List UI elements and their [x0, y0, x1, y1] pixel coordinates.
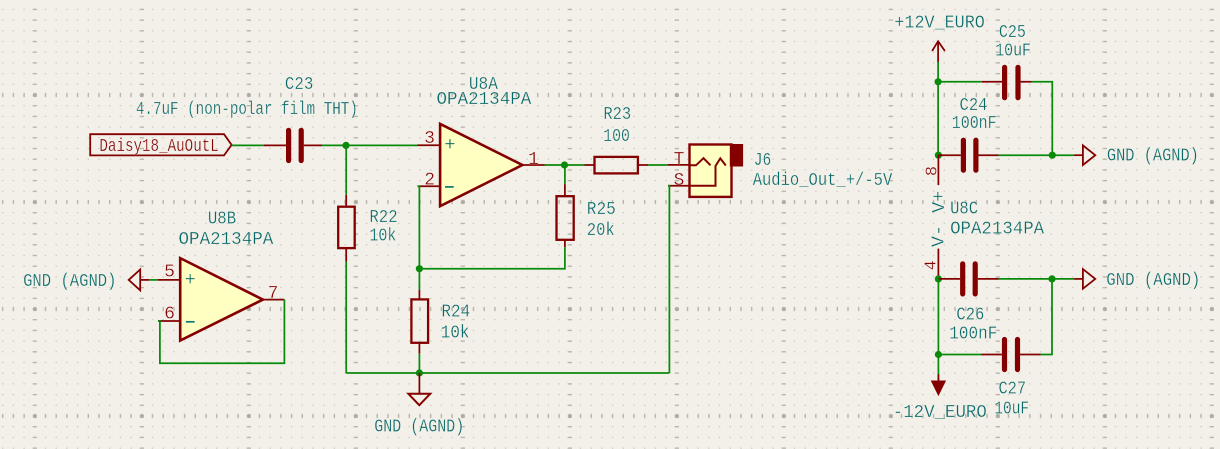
capacitor C27: [982, 340, 1041, 370]
svg-text:J6: J6: [754, 150, 772, 171]
svg-text:100nF: 100nF: [952, 113, 997, 134]
junction node D: [416, 369, 423, 376]
hierarchical label GND (AGND) row1: [1074, 145, 1199, 166]
svg-text:C23: C23: [285, 74, 313, 95]
wire node H down to node J: [937, 279, 939, 355]
wire node B down to R25: [564, 165, 566, 184]
svg-text:R23: R23: [603, 104, 631, 125]
global label Daisy18_AuOutL: [90, 134, 231, 157]
svg-text:OPA2134PA: OPA2134PA: [950, 219, 1045, 240]
junction node G: [1049, 152, 1056, 159]
wire node C to R24: [418, 269, 420, 290]
junction node A: [342, 142, 349, 149]
wire C23 to node A: [322, 144, 418, 146]
capacitor C24: [938, 140, 998, 170]
svg-text:8: 8: [923, 166, 942, 176]
wire C26 to node I: [999, 278, 1053, 280]
svg-text:V-: V-: [928, 225, 949, 247]
bottom rail wire: [346, 372, 669, 374]
svg-text:R24: R24: [441, 301, 470, 322]
wire J6 S down to rail: [668, 186, 669, 373]
svg-text:10k: 10k: [369, 225, 396, 246]
svg-text:T: T: [674, 150, 685, 170]
junction node I: [1048, 275, 1055, 282]
svg-text:2: 2: [424, 170, 435, 190]
hierarchical label GND (AGND) left: [23, 270, 149, 292]
wire node E to C25: [938, 81, 982, 83]
wire +12V to node E: [937, 62, 939, 82]
svg-text:Audio_Out_+/-5V: Audio_Out_+/-5V: [753, 170, 893, 191]
svg-text:100: 100: [603, 126, 630, 147]
svg-text:OPA2134PA: OPA2134PA: [179, 229, 275, 250]
svg-text:R25: R25: [587, 199, 616, 220]
svg-text:4.7uF (non-polar film THT): 4.7uF (non-polar film THT): [136, 99, 358, 120]
wire node I to hier label: [1052, 278, 1074, 280]
svg-text:C26: C26: [956, 305, 984, 326]
svg-text:Daisy18_AuOutL: Daisy18_AuOutL: [99, 136, 218, 157]
wire R23 to J6 tip: [648, 164, 668, 166]
resistor R25: [557, 184, 574, 247]
connector J6: [668, 145, 743, 197]
op-amp U8B: [158, 258, 284, 340]
op-amp U8A: [418, 124, 545, 206]
wire C27 right up: [1041, 279, 1053, 355]
wire node E down to node F: [937, 82, 939, 155]
svg-text:GND (AGND): GND (AGND): [1107, 146, 1199, 167]
svg-text:OPA2134PA: OPA2134PA: [437, 89, 533, 110]
wire net AuOutL to C23: [232, 144, 264, 146]
svg-text:7: 7: [268, 284, 279, 304]
junction node H: [935, 275, 942, 282]
wire node J to C27: [938, 354, 981, 356]
junction node B: [561, 161, 568, 168]
svg-text:-12V_EURO: -12V_EURO: [893, 402, 987, 423]
svg-text:+: +: [444, 134, 455, 156]
wire U8A out to node B: [545, 164, 585, 166]
svg-text:3: 3: [424, 129, 435, 149]
power symbol +12V_EURO: [932, 41, 945, 62]
hierarchical label GND (AGND) row2: [1074, 269, 1200, 291]
junction node F: [935, 152, 942, 159]
resistor R23: [585, 157, 649, 174]
wire C24 to node G: [999, 154, 1053, 156]
svg-text:+: +: [184, 269, 195, 291]
wire label to U8B pin5: [149, 279, 158, 281]
svg-text:GND (AGND): GND (AGND): [1106, 270, 1200, 291]
wire node G to hier label: [1052, 154, 1074, 156]
svg-text:GND (AGND): GND (AGND): [23, 271, 116, 292]
wire R25 to feedback node: [419, 247, 565, 268]
ground symbol AGND: [408, 373, 430, 405]
svg-text:+12V_EURO: +12V_EURO: [894, 13, 985, 34]
svg-text:V+: V+: [929, 191, 950, 213]
capacitor C26: [938, 264, 998, 294]
wire node A down to R22: [345, 145, 347, 194]
U8C pin V-: [937, 249, 939, 279]
svg-text:S: S: [674, 171, 685, 191]
U8A pin name -: [445, 186, 454, 188]
capacitor C25: [982, 67, 1032, 97]
junction node E: [935, 78, 942, 85]
svg-text:10k: 10k: [441, 322, 470, 343]
svg-text:5: 5: [164, 262, 175, 282]
wire R22 to bottom rail: [345, 262, 347, 374]
svg-text:10uF: 10uF: [995, 41, 1031, 62]
U8B feedback wire: [158, 300, 284, 364]
svg-text:C27: C27: [998, 379, 1026, 400]
junction node J: [935, 351, 942, 358]
U8B pin name -: [186, 321, 195, 323]
svg-text:U8C: U8C: [950, 199, 978, 220]
svg-text:100nF: 100nF: [949, 324, 997, 345]
resistor R22: [338, 195, 355, 262]
svg-text:20k: 20k: [587, 220, 615, 241]
wire C25 to right drop: [1032, 82, 1053, 155]
wire U8A pin2 down: [418, 186, 420, 269]
svg-text:6: 6: [164, 305, 175, 325]
wire R24 to rail: [418, 354, 420, 373]
U8C pin V+: [937, 155, 939, 185]
svg-text:U8B: U8B: [208, 209, 236, 230]
power symbol -12V_EURO: [932, 355, 946, 396]
junction node C: [416, 265, 423, 272]
svg-text:1: 1: [528, 150, 539, 170]
resistor R24: [411, 290, 428, 354]
capacitor C23: [264, 130, 322, 160]
svg-text:10uF: 10uF: [994, 399, 1029, 420]
svg-text:GND (AGND): GND (AGND): [374, 417, 464, 438]
